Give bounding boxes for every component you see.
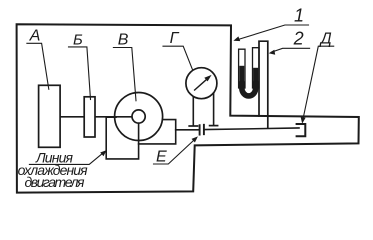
manometer liquid columns bbox=[239, 66, 244, 87]
svg-text:В: В bbox=[118, 31, 129, 48]
leader line of label A bbox=[27, 43, 49, 89]
fan inlet box bbox=[106, 117, 138, 159]
pipe from fan to orifice bbox=[176, 129, 199, 131]
probe bracket D inside duct bbox=[297, 124, 306, 136]
manometer liquid U bend bbox=[242, 84, 256, 96]
gauge right leg bbox=[213, 93, 215, 125]
manometer left tube bbox=[239, 49, 245, 88]
leader line of label 2 bbox=[271, 48, 309, 52]
leader line of label D bbox=[303, 46, 334, 121]
manometer right tube bbox=[253, 48, 260, 88]
component B rectangle bbox=[84, 97, 95, 137]
svg-text:Г: Г bbox=[170, 30, 180, 47]
gauge left leg bbox=[192, 97, 194, 126]
orifice plates E bbox=[199, 125, 201, 134]
gauge body G bbox=[186, 68, 217, 99]
svg-text:1: 1 bbox=[294, 5, 304, 25]
svg-text:двигателя: двигателя bbox=[25, 174, 86, 190]
shaft wire from A to fan hub bbox=[60, 116, 138, 118]
svg-text:Б: Б bbox=[73, 31, 83, 48]
leader line of label E bbox=[154, 138, 196, 164]
leader line of label B bbox=[69, 47, 91, 100]
leader line of label V bbox=[113, 48, 136, 101]
fan hub circle bbox=[132, 110, 145, 123]
svg-text:2: 2 bbox=[293, 29, 304, 49]
leader line of label 1 bbox=[236, 25, 308, 40]
pipe from orifice to probe bbox=[204, 128, 299, 130]
component A rectangle bbox=[39, 85, 61, 147]
gauge needle bbox=[195, 79, 208, 90]
svg-text:А: А bbox=[29, 28, 41, 45]
main box (test chamber) with outlet duct bbox=[17, 24, 359, 192]
svg-text:Е: Е bbox=[156, 148, 167, 165]
svg-text:Д: Д bbox=[319, 30, 332, 47]
fan casing circle V bbox=[115, 93, 163, 141]
fan volute outlet bbox=[139, 120, 176, 144]
manometer stand plate 2 bbox=[259, 41, 268, 127]
leader line of label G bbox=[163, 46, 193, 70]
leader line of text note bbox=[29, 152, 104, 165]
